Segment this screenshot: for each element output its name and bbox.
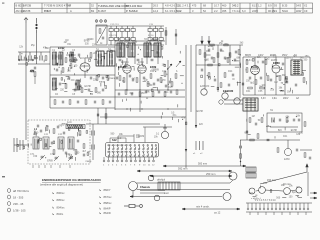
svg-text:18 - 305: 18 - 305: [13, 196, 24, 200]
svg-text:235 215: 235 215: [109, 35, 118, 37]
svg-text:472: 472: [30, 70, 35, 73]
svg-text:1M: 1M: [274, 82, 277, 84]
svg-text:B.4607: B.4607: [98, 9, 107, 13]
junction dots rail: [126, 108, 168, 109]
svg-text:592 mm: 592 mm: [178, 167, 187, 171]
svg-text:ECH8: ECH8: [291, 130, 298, 132]
svg-text:mana: mana: [234, 61, 240, 63]
header table text: [16, 4, 302, 13]
svg-text:806/xx: 806/xx: [57, 191, 66, 195]
AM coil L11: [43, 137, 49, 149]
svg-text:250 mm: 250 mm: [206, 172, 215, 176]
svg-text:ECH8: ECH8: [85, 86, 92, 88]
FM tuner lower resistors: [54, 100, 111, 104]
svg-text:804/L: 804/L: [57, 212, 64, 216]
am labels: [30, 121, 72, 156]
svg-text:4 1 2 5 3 7 1 6 2 4 8 2 5 3: 4 1 2 5 3 7 1 6 2 4 8 2 5 3: [107, 152, 131, 154]
svg-text:L11: L11: [44, 133, 48, 136]
terminal strip lower dashes: [250, 212, 306, 215]
resistor grid B row1: [148, 26, 163, 32]
resistor grid A row1: [109, 26, 135, 32]
ferrite rod hatch darker: [67, 125, 83, 128]
mains wires: [219, 100, 247, 140]
extra AF passives: [199, 49, 240, 88]
cord lines: [133, 180, 233, 196]
header extra dividers right: [176, 3, 303, 13]
svg-text:866/Y: 866/Y: [104, 188, 111, 192]
final texture pass: [55, 52, 178, 111]
svg-text:EM80: EM80: [270, 55, 277, 57]
svg-text:1M: 1M: [287, 92, 290, 94]
mains transformer darkening: [243, 98, 258, 111]
extra detector passives: [246, 118, 306, 138]
svg-text:EL84: EL84: [251, 65, 258, 69]
svg-text:345.2: 345.2: [232, 4, 239, 8]
output transformer T2: [291, 60, 302, 75]
svg-text:804/xx: 804/xx: [57, 205, 66, 209]
rail y140: [240, 139, 300, 155]
svg-text:R21: R21: [206, 50, 211, 53]
oscillator can: [161, 124, 168, 139]
svg-text:EL84: EL84: [246, 59, 252, 62]
svg-text:C55: C55: [258, 90, 263, 93]
svg-text:EM80: EM80: [273, 61, 280, 65]
AF section rails: [196, 45, 243, 98]
svg-text:1M: 1M: [252, 116, 255, 118]
svg-text:1,2: 1,2: [258, 4, 262, 8]
extra IF passives: [116, 59, 173, 87]
svg-text:C12 C13: C12 C13: [110, 24, 119, 26]
right pulley top: [229, 172, 237, 180]
svg-text:12,4: 12,4: [153, 9, 159, 13]
resistor grid A row2: [109, 32, 135, 46]
FM input coils: [53, 54, 77, 89]
long verticals to dial: [186, 45, 196, 168]
svg-text:26.5: 26.5: [153, 4, 159, 8]
pointer arrow: [195, 125, 197, 128]
right cluster passives: [246, 60, 305, 89]
switch box inner numbering: [107, 145, 131, 154]
legend col1: [8, 189, 30, 213]
IF transformer S1: [96, 51, 104, 66]
IF can S3: [117, 43, 124, 57]
svg-text:0,9A: 0,9A: [272, 97, 277, 100]
legend title: [40, 178, 101, 187]
svg-text:ECH8: ECH8: [197, 111, 204, 113]
svg-text:6BQ5: 6BQ5: [245, 55, 252, 57]
svg-text:mana: mana: [86, 161, 92, 163]
top-center alignment marks: [95, 20, 107, 23]
header table: [15, 3, 313, 13]
svg-text:140V: 140V: [258, 55, 264, 57]
svg-text:864/D: 864/D: [104, 211, 111, 215]
svg-text:a b c d e f: a b c d e f: [251, 198, 261, 200]
value labels (scattered): [19, 39, 309, 201]
svg-text:475: 475: [192, 4, 197, 8]
IF lower extra passives: [118, 60, 178, 96]
trimmer arrows: [40, 155, 73, 161]
switch wires up: [110, 127, 145, 143]
svg-text:EF89: EF89: [138, 61, 144, 64]
resistor grid B row2: [148, 32, 163, 46]
svg-text:867/xx: 867/xx: [104, 195, 113, 199]
right cluster top text row: [245, 55, 297, 57]
svg-text:1,4: 1,4: [177, 9, 181, 13]
AF labels: [200, 50, 233, 88]
switch contacts row 1: [108, 145, 156, 150]
mixer box: [96, 25, 107, 45]
svg-text:C72: C72: [50, 153, 55, 156]
wire stubs and junctions texture: [21, 45, 306, 197]
header extra cell text: [44, 4, 302, 13]
svg-text:A7: A7: [68, 4, 72, 8]
mains transformer T1: [243, 98, 258, 111]
AM coil L10: [33, 137, 39, 149]
svg-text:500 mm: 500 mm: [198, 163, 207, 166]
svg-text:FM 88: FM 88: [23, 9, 31, 13]
tube V4 EL84: [251, 57, 260, 95]
svg-text:805/xx: 805/xx: [57, 198, 66, 202]
svg-text:R31: R31: [246, 90, 251, 93]
svg-text:ECH81: ECH81: [118, 65, 127, 69]
svg-text:ECH81: ECH81: [121, 61, 129, 64]
dial drum: [158, 182, 180, 190]
svg-text:a8 763 04/xx: a8 763 04/xx: [13, 189, 30, 193]
svg-text:B2: B2: [91, 9, 95, 13]
svg-text:EF89: EF89: [150, 65, 157, 69]
AM tuner dashed enclosure: [28, 120, 90, 164]
right edge arrows: [310, 192, 317, 199]
svg-text:EABC80: EABC80: [223, 89, 234, 93]
tube V5 EM80: [272, 57, 280, 95]
svg-text:54/3: 54/3: [296, 4, 302, 8]
svg-text:290V: 290V: [283, 98, 289, 100]
svg-text:7.6 4.2: 7.6 4.2: [232, 9, 240, 13]
AM box bottom terminal dashes: [33, 165, 70, 168]
drum labels: [157, 179, 169, 196]
IF can S5: [144, 43, 151, 57]
svg-text:220V: 220V: [252, 9, 258, 13]
svg-text:1/38 - 105: 1/38 - 105: [13, 209, 26, 213]
IF can S4: [128, 43, 135, 57]
right mid small parts: [300, 150, 312, 159]
legend col2: [52, 191, 65, 216]
FM coil columns darkening: [53, 52, 80, 90]
tube V1 ECC85: [80, 58, 90, 78]
right cluster bottom text row: [261, 97, 300, 100]
svg-text:T-703B M 02420 473/B: T-703B M 02420 473/B: [44, 4, 71, 8]
pointer wire diagonal: [260, 164, 308, 184]
switch terminal numbers: [103, 165, 155, 167]
ratio detector box: [267, 113, 302, 132]
spring and hook: [124, 205, 142, 208]
svg-text:6,3V: 6,3V: [261, 98, 266, 100]
svg-text:2,1: 2,1: [177, 4, 181, 8]
cable marker: [18, 59, 34, 61]
svg-text:50Hz: 50Hz: [282, 9, 289, 13]
IF labels: [117, 38, 173, 89]
svg-text:R24: R24: [228, 70, 233, 73]
tube V2 ECH81: [123, 58, 131, 90]
tone pot branch: [240, 140, 242, 166]
matrix rails: [96, 26, 164, 45]
svg-text:drivhjul: drivhjul: [157, 179, 165, 182]
svg-text:R41: R41: [283, 135, 288, 138]
svg-text:min 4 omdr.: min 4 omdr.: [196, 205, 210, 209]
svg-text:ferrit: ferrit: [67, 121, 72, 124]
svg-text:P. 51/MHz: P. 51/MHz: [126, 9, 138, 13]
output transformer detail: [246, 167, 256, 178]
IF can S6: [154, 43, 161, 57]
band switch box: [106, 143, 159, 158]
svg-text:Chassis: Chassis: [140, 185, 151, 189]
arrows a b: [166, 61, 181, 76]
IF section passives: [119, 72, 177, 84]
right cluster labels: [246, 57, 293, 93]
svg-text:EZ80: EZ80: [284, 158, 290, 161]
svg-text:87,5-100 MHz: 87,5-100 MHz: [126, 4, 143, 8]
FM box drops to chassis rail: [97, 108, 107, 124]
right cluster box: [243, 57, 310, 95]
wire antenna down: [25, 23, 27, 130]
svg-text:(verdiene alle angitt på diagr: (verdiene alle angitt på diagrammet): [40, 183, 83, 187]
FM tuner labels: [52, 48, 112, 96]
right lower vertical: [307, 172, 309, 196]
switch terminals below: [103, 157, 154, 162]
FM dipole: [36, 18, 38, 33]
svg-text:864/P: 864/P: [104, 207, 111, 211]
svg-text:EF89: EF89: [84, 40, 90, 42]
svg-text:ENDRINGER/POSER OG MODIFIKASJO: ENDRINGER/POSER OG MODIFIKASJON: [42, 178, 101, 182]
tube V3 EF89: [138, 58, 146, 73]
svg-text:T. 528: T. 528: [44, 9, 52, 13]
node stack left: [30, 67, 36, 84]
svg-text:8.9: 8.9: [268, 4, 272, 8]
rail y109 extension: [115, 108, 186, 110]
svg-text:455: 455: [222, 9, 227, 13]
svg-text:6,3: 6,3: [242, 9, 246, 13]
pointer arrow 2: [185, 149, 187, 152]
left pulley: [129, 182, 138, 191]
matrix labels: [109, 24, 154, 37]
page marks: [2, 176, 5, 177]
AF passives: [204, 44, 237, 77]
ferrite rod: [66, 125, 85, 129]
right matrix stacks: [165, 27, 177, 45]
right cluster verticals: [265, 57, 285, 95]
extra FM tuner passives: [56, 53, 109, 92]
svg-text:EF89: EF89: [47, 161, 53, 163]
lower cord: [130, 193, 231, 201]
svg-text:868/xx: 868/xx: [104, 201, 113, 205]
svg-text:L 703B: L 703B: [23, 4, 31, 8]
antenna switch: [14, 130, 28, 152]
legend col3: [99, 188, 112, 215]
svg-text:10,7: 10,7: [214, 4, 220, 8]
rail y117 extension: [100, 116, 155, 118]
svg-text:t/38 - 45: t/38 - 45: [13, 202, 24, 206]
svg-text:250V: 250V: [282, 55, 288, 57]
tube row bottom right: [249, 187, 302, 195]
switch contacts row 2: [108, 151, 156, 156]
extra AM box passives: [37, 125, 85, 157]
wire dipole down: [36, 33, 38, 64]
svg-text:EABC80: EABC80: [200, 85, 210, 88]
additional texture marks: [17, 54, 294, 158]
svg-text:2.2: 2.2: [214, 9, 218, 13]
svg-text:C41: C41: [220, 50, 225, 53]
transistor stage circles: [201, 89, 240, 104]
bold designators: [34, 46, 280, 142]
svg-text:40W: 40W: [296, 9, 302, 13]
AM coil L13: [68, 137, 74, 149]
IF section rails: [115, 41, 185, 112]
svg-text:S12: S12: [112, 138, 117, 142]
svg-text:EC92: EC92: [58, 46, 65, 50]
IF transformer S2: [107, 51, 115, 66]
FM tuner section rails: [50, 40, 185, 110]
dial cord measure line 1: [137, 167, 232, 173]
terminal strip: [246, 203, 312, 212]
svg-text:1 3 5 2 6 1 4 2 8 3 5 1 7 2: 1 3 5 2 6 1 4 2 8 3 5 1 7 2: [107, 145, 131, 147]
dial cord measure line 2: [150, 172, 232, 177]
svg-text:snor: snor: [164, 192, 169, 195]
extra right cluster passives: [242, 60, 288, 86]
svg-text:TUNING AND LINE CORD: TUNING AND LINE CORD: [98, 4, 129, 8]
svg-text:82 16: 82 16: [148, 35, 154, 37]
output transformer darkening: [291, 60, 302, 75]
svg-text:460: 460: [222, 4, 227, 8]
svg-text:150 mm: 150 mm: [267, 179, 276, 182]
bottom measure arrow: [182, 205, 240, 215]
svg-text:C9: C9: [304, 9, 308, 13]
antenna: [24, 18, 28, 24]
IF can darkening overlays: [96, 43, 161, 66]
det labels: [270, 109, 290, 161]
input filter row left: [18, 52, 50, 64]
AM section passives: [40, 129, 85, 159]
dial left cluster: [140, 175, 165, 201]
svg-text:B.35: B.35: [282, 4, 288, 8]
svg-text:L12: L12: [58, 133, 63, 136]
pointer lead dashes: [196, 141, 203, 150]
svg-text:A: A: [70, 9, 72, 13]
chassis rail mid: [86, 117, 186, 160]
measure line 500mm: [163, 163, 246, 167]
svg-text:ca 12: ca 12: [214, 211, 221, 215]
small dimension labels right: [267, 179, 291, 186]
svg-text:mana: mana: [109, 78, 115, 80]
AM coil L12: [58, 137, 64, 149]
svg-text:X2: X2: [304, 4, 308, 8]
signal entry arrows: [201, 36, 210, 44]
